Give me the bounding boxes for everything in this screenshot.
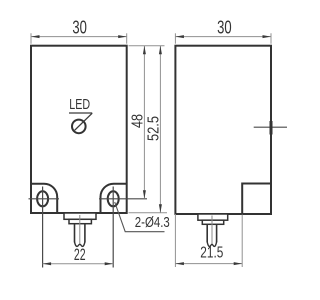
- dim 30 left: dimension line: [31, 36, 127, 38]
- connector tier2 side: [202, 220, 223, 224]
- dim 21.5: extension line left (below body corner): [174, 214, 176, 267]
- LED leader diagonal: [75, 113, 93, 130]
- body outline side view: [175, 46, 271, 214]
- dim 48: arrow top: [143, 46, 146, 55]
- LED mark thick dash on edge: [270, 121, 273, 135]
- dim 30 left: extension line left: [30, 33, 32, 43]
- body outline front view: [31, 46, 127, 213]
- cable break wave side: [207, 242, 216, 247]
- connector tier2 front: [69, 219, 91, 223]
- dim 30 left: arrow right: [118, 35, 127, 38]
- cable center line side: [211, 216, 213, 245]
- hole left: [37, 191, 48, 206]
- dim 21.5: arrow left: [175, 262, 184, 265]
- connector tier1 side: [198, 214, 228, 220]
- cable break wave front: [75, 242, 85, 247]
- dim 21.5: dimension line: [175, 263, 242, 265]
- dim 30 right: arrow left: [175, 35, 184, 38]
- svg-text:LED: LED: [69, 97, 90, 113]
- dim 30 right: arrow right: [263, 35, 272, 38]
- cable right edge side: [216, 224, 218, 242]
- svg-text:48: 48: [129, 114, 146, 128]
- cable left edge side: [206, 224, 208, 242]
- connector tier1 front: [64, 213, 96, 219]
- dim 21.5: extension line right (below notch corner): [241, 215, 243, 268]
- svg-text:22: 22: [74, 246, 86, 264]
- dim 52.5: dimension line: [159, 46, 161, 213]
- bottom extension line for 52.5: [129, 212, 168, 214]
- right mounting ear: [101, 184, 127, 213]
- LED indicator circle: [72, 120, 86, 134]
- svg-text:52.5: 52.5: [145, 116, 162, 141]
- dim 30 right: extension line left: [174, 33, 176, 43]
- LED underline: [69, 112, 92, 114]
- dim 22: arrow right: [105, 262, 114, 265]
- leader line 2-Ø4.3: [115, 202, 165, 232]
- center line horizontal hole right + ext for 48 dim: [99, 198, 147, 200]
- svg-text:21.5: 21.5: [200, 245, 223, 262]
- dim 21.5: arrow right: [234, 262, 243, 265]
- svg-text:30: 30: [217, 17, 232, 37]
- cable right edge front: [84, 224, 86, 243]
- center line vertical hole left (also ext line for 22): [42, 187, 44, 268]
- LED mark center line on side: [254, 126, 287, 128]
- cable left edge front: [74, 224, 76, 243]
- left mounting ear: [31, 184, 57, 213]
- dim 48: dimension line: [143, 46, 145, 199]
- notch step at bottom right: [242, 184, 271, 215]
- center line horizontal hole left: [29, 198, 60, 200]
- dim 30 right: dimension line: [175, 36, 271, 38]
- dim 48: arrow bottom: [143, 190, 146, 199]
- dim 22: dimension line: [43, 263, 114, 265]
- svg-text:30: 30: [72, 17, 87, 37]
- dim 52.5: arrow top: [159, 46, 162, 55]
- dim 22: arrow left: [43, 262, 52, 265]
- center line vertical hole right (also ext line for 22): [112, 187, 114, 268]
- dim 30 left: arrow left: [31, 35, 40, 38]
- cable center line front: [79, 215, 81, 244]
- dim 52.5: arrow bottom: [159, 204, 162, 213]
- dim 30 left: extension line right: [126, 33, 128, 43]
- dim 30 right: extension line right: [270, 33, 272, 43]
- top extension line to vertical dims: [129, 45, 165, 47]
- hole right: [108, 191, 119, 206]
- svg-text:2-Ø4.3: 2-Ø4.3: [135, 214, 170, 231]
